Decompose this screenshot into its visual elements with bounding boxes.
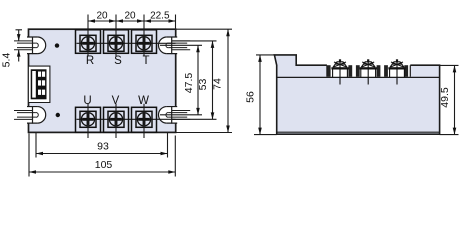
svg-text:S: S	[114, 55, 122, 67]
svg-text:105: 105	[95, 159, 113, 171]
dimension 5.4 left	[16, 30, 23, 62]
svg-text:V: V	[112, 95, 120, 107]
side seam line	[277, 76, 440, 78]
svg-text:20: 20	[124, 11, 136, 22]
control terminal recess	[28, 66, 50, 102]
mounting slot top-left	[14, 37, 46, 55]
screw center extension lines bottom	[88, 104, 144, 138]
dimension 93 bottom	[36, 133, 168, 158]
terminal R	[76, 30, 101, 54]
screw center extension lines top	[88, 15, 176, 57]
svg-text:53: 53	[197, 79, 209, 91]
slot extension line 53 bottom	[172, 118, 217, 120]
svg-text:U: U	[83, 95, 91, 107]
terminal strip recess	[327, 63, 410, 77]
svg-text:T: T	[142, 55, 149, 67]
terminal row centerline bottom	[77, 118, 176, 120]
svg-text:47.5: 47.5	[183, 73, 195, 94]
svg-text:49.5: 49.5	[439, 87, 451, 108]
dimension 105 bottom	[29, 133, 175, 176]
front view body	[29, 29, 176, 132]
mounting slot bottom-right	[159, 106, 191, 124]
terminal U	[76, 107, 101, 132]
slot extension line 53 top	[172, 40, 217, 42]
divider blocks	[327, 65, 408, 77]
svg-text:56: 56	[245, 91, 257, 103]
recess end walls	[327, 65, 410, 77]
svg-text:74: 74	[212, 78, 224, 90]
pilot dot top	[55, 43, 59, 47]
svg-text:R: R	[86, 55, 94, 67]
svg-text:20: 20	[96, 11, 108, 22]
side view body	[274, 55, 439, 134]
pilot dot bottom	[56, 113, 60, 117]
terminal V	[104, 107, 129, 132]
mounting slot top-right	[159, 37, 191, 55]
side screw terminal at 368.2	[360, 59, 377, 84]
svg-text:22.5: 22.5	[150, 11, 170, 22]
svg-text:93: 93	[97, 141, 109, 153]
side baseplate line	[277, 131, 440, 133]
dimension 49.5 right of side view	[440, 65, 459, 134]
svg-text:W: W	[138, 95, 149, 107]
dimension 20 20 22.5 top	[88, 19, 176, 23]
side screw terminal at 340	[331, 59, 348, 84]
dimension 47.5 right	[160, 45, 202, 115]
side screw terminal at 397	[388, 59, 405, 84]
control connector block	[31, 69, 47, 99]
terminal T	[132, 30, 157, 54]
dimension 56 left of side view	[254, 55, 277, 135]
dimension 53 right	[211, 41, 215, 119]
dimension 74 right	[176, 29, 232, 132]
svg-text:5.4: 5.4	[1, 53, 13, 68]
connector pins	[38, 72, 45, 95]
mounting slot bottom-left	[14, 106, 46, 124]
terminal S	[104, 30, 129, 54]
terminal W	[132, 107, 157, 132]
terminal row centerline top	[77, 42, 176, 44]
